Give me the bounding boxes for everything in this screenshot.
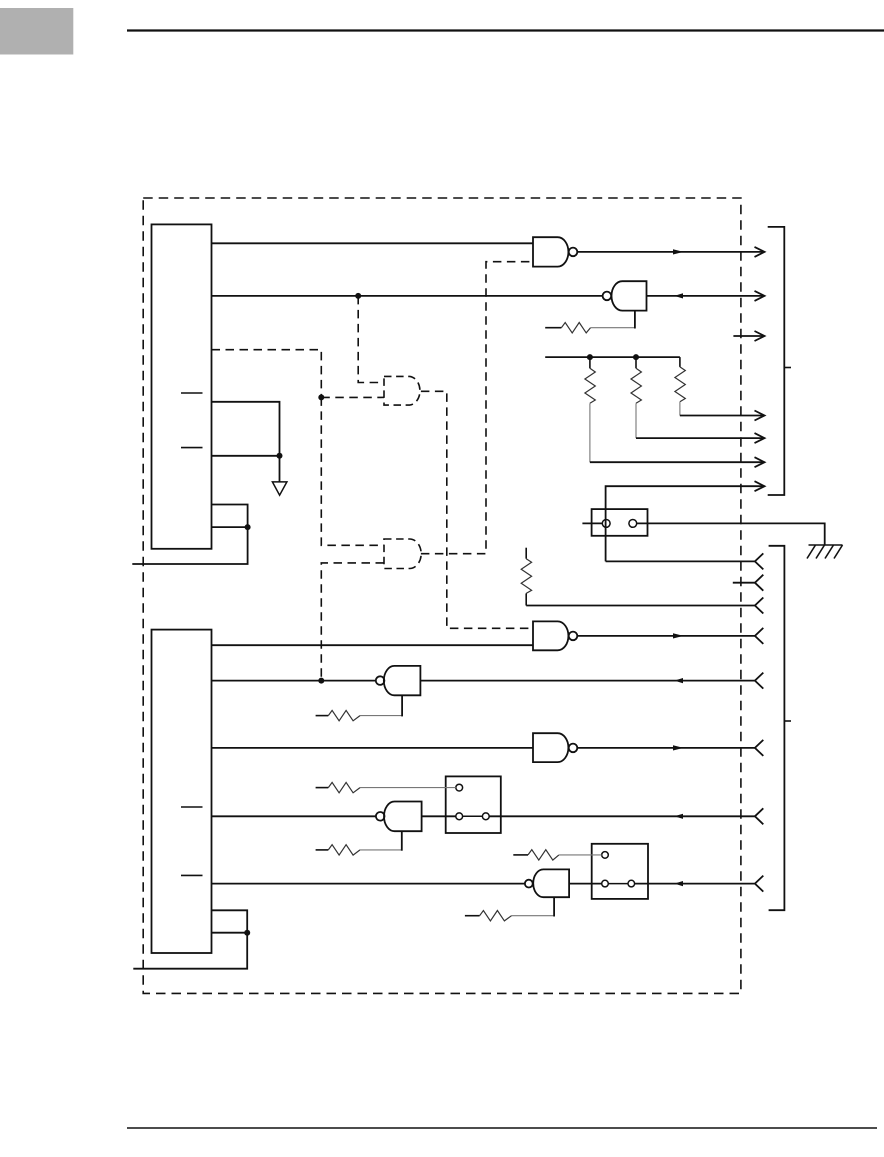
nand U5D (left facing) [376,802,422,832]
wire U2 pin2 to gate U5B bubble [212,680,376,682]
connector chevron in 4 [755,628,763,644]
arrowhead on U3B wire [674,293,683,298]
wire U2 pin5 to gate U5E bubble [212,883,526,885]
node rail-R3 [633,354,639,360]
wire K1 to chassis ground [637,523,825,545]
node pin6/pin7 [245,524,251,530]
arrowhead on U3A output [673,249,684,254]
resistor R10 (pull for U5E) [465,897,554,921]
resistor R4 (vertical) [675,357,685,415]
K1 stub wire left [582,522,602,524]
connector chevron in 6 [755,740,763,756]
bracket right lower [769,546,785,910]
arrowhead on K3 wire [674,881,683,886]
wire into U3B from right [647,295,765,297]
wire U2 pin4 to gate U5D bubble [212,815,377,817]
dashed wire to U4A lower input [321,396,384,398]
dashed schematic enclosure [143,198,741,993]
nand U5C [533,733,577,762]
resistor R7 (to K2 coil) [316,782,456,792]
wire U2 pin3 to gate U5C [212,747,534,749]
K3 contact circle top [602,852,609,859]
and gate U4B (dashed outline) [384,539,421,569]
U2 pin tick 2 [181,874,203,876]
wire R3 to connector [636,437,765,439]
wire K3 to connector [635,883,755,885]
wire U1 pin4 [212,402,280,456]
bracket upper tick [784,367,791,369]
wire U5C output to connector [577,747,755,749]
node dashed net [318,394,324,400]
dashed wire U1 pin3 [212,350,322,398]
resistor R8 (pull for U5D) [316,831,402,855]
wire between K3 contacts [608,883,628,885]
dashed tap from pin2 wire to U4A upper input [358,296,384,383]
wire node to ground [279,456,281,482]
nand U3B (left facing) [603,281,647,310]
nand U5A [533,621,577,650]
dashed wire U4B output up to U3A lower input [421,262,533,554]
K1 contact circle 2 [629,520,637,528]
wire U1 pin1 to gate A [212,242,534,244]
wire U5D to relay K2 [422,815,456,817]
connector arrow out 3 (stub) [733,335,764,337]
node pin2/dashed [318,678,324,684]
wire R2 to connector [590,461,765,463]
wire U1 pin6 [212,505,248,528]
relay contact box K1 [592,509,648,536]
chassis ground [807,545,843,559]
wire K2 to connector [489,815,755,817]
wire between K2 contacts [463,815,483,817]
wire U5E to relay K3 [569,883,602,885]
wire U2 pin6 [212,910,248,932]
wire K1 bottom to connector chevron [606,560,755,562]
wire into U5B from right [420,680,755,682]
relay contact box K3 [592,844,648,899]
node rail-R2 [587,354,593,360]
connector chevron in 5 [755,673,763,689]
footer rule [127,1127,877,1129]
nand U5E (left facing) [525,869,569,897]
connector chevron in 3 [755,598,763,614]
arrowhead on U5A output [673,633,684,638]
bracket lower tick [784,720,791,722]
arrowhead on U5C output [673,745,684,750]
U1 pin tick 2 [181,447,203,449]
K1 contact circle 1 [602,520,610,528]
K3 contact circle bottom 2 [628,880,635,887]
and gate U4A (dashed outline) [384,376,420,405]
connector arrow out 1 [755,247,765,257]
wire R4 to connector [680,415,765,417]
wire U3A output [577,251,764,253]
wire pins exit left bottom [133,933,247,969]
connector chevron in 2 (stub) [733,582,755,584]
node on pin2 wire [355,293,361,299]
arrowhead on U5B wire [674,678,683,683]
node pin4/pin5 [277,453,283,459]
supply rail for resistor network [545,356,680,358]
connector chevron in 1 [755,553,763,569]
nand U5B (left facing) [376,666,421,695]
header rule [127,29,884,31]
U1 pin tick 1 [181,392,203,394]
K2 contact circle bottom 1 [456,813,463,820]
resistor R9 (to K3 coil) [513,850,601,860]
wire U1 pin2 to gate B output bubble [212,295,603,297]
wire relay K1 riser to connector [606,486,765,561]
connector chevron in 7 [755,808,763,824]
wire pins exit left [132,527,247,564]
bracket right upper [768,227,785,495]
connector arrow out 6 [755,457,765,467]
U2 pin tick 1 [181,806,203,808]
resistor R3 (vertical) [631,357,641,438]
resistor R5 (vertical, x=526) [521,548,531,606]
dashed wire U4B lower input from node [321,563,384,681]
connector arrow out 7 [755,481,765,491]
resistor R1 (pull for U3B) [545,311,635,333]
IC block U1 [152,224,212,548]
IC block U2 [152,630,212,953]
wire U1 pin7 [212,526,248,528]
connector arrow out 4 [755,411,765,421]
wire U5A output to connector [577,635,755,637]
wire R5 to connector chevron [526,605,755,607]
wire U2 pin7 [212,932,248,934]
resistor R6 (pull for U5B) [316,695,403,721]
connector chevron in 8 [755,876,763,892]
nand U3A [533,237,577,266]
arrowhead on K2 wire [674,814,683,819]
K2 contact circle top [456,784,463,791]
connector arrow out 2 [755,291,765,301]
resistor R2 (vertical) [585,357,595,462]
wire U1 pin5 [212,455,280,457]
ground (open triangle) [272,482,287,495]
relay contact box K2 [446,776,501,833]
dashed wire node down to U4B upper input [321,397,384,545]
dashed wire U4A output to U5A upper input [421,391,533,628]
connector arrow out 5 [755,433,765,443]
wire U2 pin1 to gate U5A [212,644,534,646]
K3 contact circle bottom 1 [602,880,609,887]
page corner gray tab [0,8,73,55]
node pin6/pin7 [244,930,250,936]
K2 contact circle bottom 2 [482,813,489,820]
